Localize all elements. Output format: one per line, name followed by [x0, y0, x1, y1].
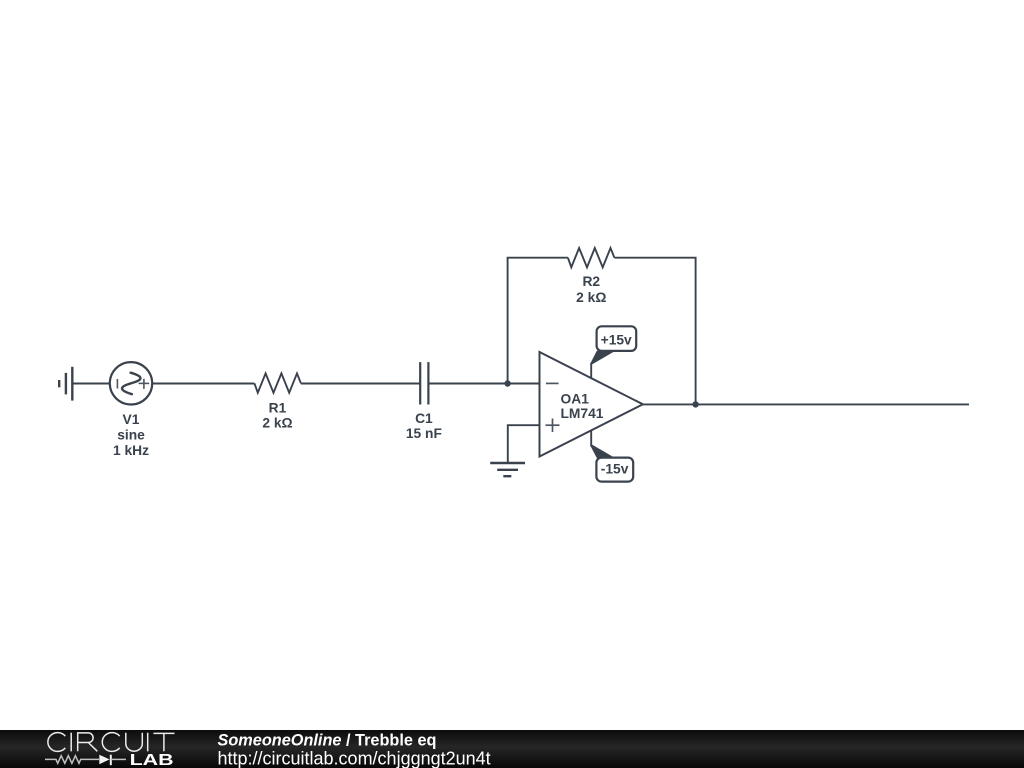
logo CIRCUIT letters	[48, 733, 175, 752]
svg-text:C1: C1	[415, 411, 433, 426]
op-amp OA1 triangle	[540, 352, 643, 457]
wire ground to V1	[72, 383, 110, 385]
resistor R2	[568, 248, 615, 267]
svg-text:sine: sine	[117, 428, 145, 443]
svg-text:R2: R2	[582, 274, 600, 289]
capacitor C1	[420, 362, 428, 404]
node junction at output	[692, 401, 698, 407]
svg-text:http://circuitlab.com/chjggngt: http://circuitlab.com/chjggngt2un4t	[218, 748, 491, 768]
wire non-inverting input	[508, 425, 540, 463]
svg-text:OA1: OA1	[561, 392, 590, 407]
svg-text:SomeoneOnline / Trebble eq: SomeoneOnline / Trebble eq	[218, 732, 437, 750]
supply stub -15v	[590, 430, 592, 447]
svg-text:+15v: +15v	[601, 332, 632, 347]
ground GND2 (below op-amp)	[490, 463, 525, 476]
flag -15v	[596, 458, 633, 482]
node junction at inverting input	[504, 380, 510, 386]
svg-text:1 kHz: 1 kHz	[113, 443, 149, 458]
op-amp plus sign	[546, 424, 560, 426]
wire V1 to R1	[152, 383, 254, 385]
svg-text:2 kΩ: 2 kΩ	[262, 416, 292, 431]
svg-text:-15v: -15v	[601, 461, 629, 476]
svg-text:LM741: LM741	[561, 406, 604, 421]
flag +15v	[597, 326, 637, 351]
wire output	[643, 403, 969, 405]
wire R1 to C1	[301, 383, 420, 385]
svg-text:15 nF: 15 nF	[406, 426, 442, 441]
voltage source V1	[110, 362, 152, 404]
logo diode glyph	[99, 755, 109, 765]
feedback wire right vertical	[614, 258, 695, 405]
op-amp minus sign	[546, 382, 559, 384]
supply stub +15v	[590, 363, 592, 378]
resistor R1	[254, 373, 301, 392]
ground GND1 (left, rotated)	[59, 367, 72, 401]
svg-text:LAB: LAB	[130, 752, 174, 768]
logo resistor glyph	[45, 756, 99, 764]
svg-text:R1: R1	[269, 401, 287, 416]
svg-text:V1: V1	[123, 412, 140, 427]
wire C1 to op-amp inverting input	[428, 383, 539, 385]
feedback wire left vertical	[508, 258, 568, 384]
svg-text:2 kΩ: 2 kΩ	[576, 290, 606, 305]
